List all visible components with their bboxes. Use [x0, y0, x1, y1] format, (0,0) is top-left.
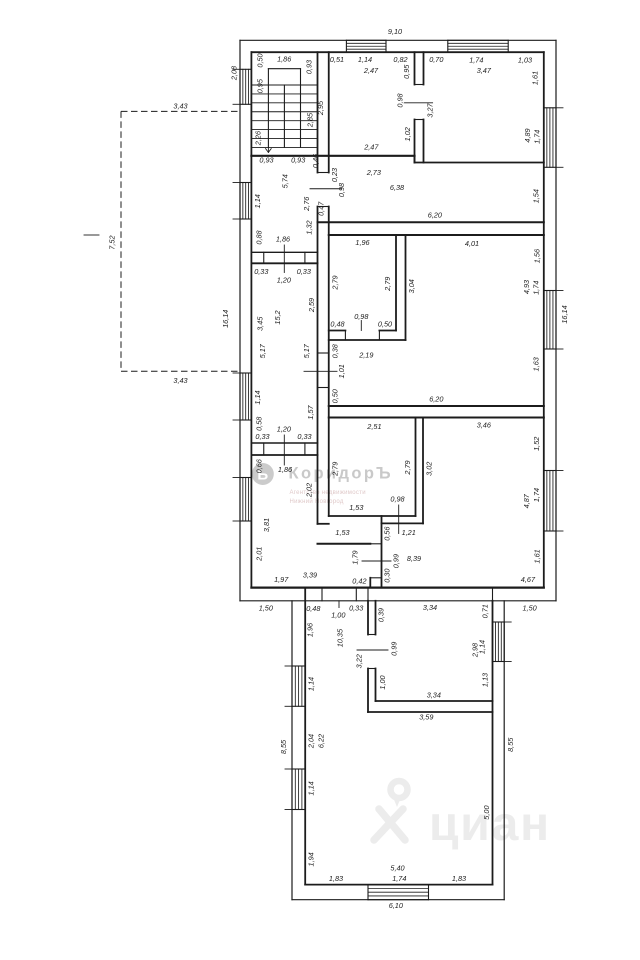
svg-text:0,39: 0,39: [377, 608, 386, 622]
svg-text:0,98: 0,98: [337, 182, 346, 197]
svg-text:2,47: 2,47: [363, 66, 379, 75]
svg-text:3,43: 3,43: [173, 101, 187, 110]
svg-text:1,74: 1,74: [532, 281, 541, 295]
svg-text:15,2: 15,2: [273, 310, 282, 324]
svg-text:4,89: 4,89: [523, 128, 532, 142]
svg-text:1,21: 1,21: [402, 528, 416, 537]
svg-text:1,50: 1,50: [522, 603, 536, 612]
svg-text:0,99: 0,99: [392, 554, 401, 568]
svg-text:3,27: 3,27: [426, 102, 435, 117]
svg-text:0,71: 0,71: [481, 604, 490, 618]
svg-text:0,98: 0,98: [354, 312, 369, 321]
svg-text:6,22: 6,22: [317, 734, 326, 748]
svg-text:1,86: 1,86: [276, 234, 291, 243]
svg-text:3,59: 3,59: [419, 713, 433, 722]
svg-text:16,14: 16,14: [560, 305, 569, 323]
svg-text:Агентство недвижимости: Агентство недвижимости: [290, 490, 366, 496]
svg-text:0,47: 0,47: [317, 201, 326, 216]
svg-text:0,93: 0,93: [304, 60, 313, 74]
svg-text:3,81: 3,81: [262, 518, 271, 532]
svg-text:1,32: 1,32: [304, 220, 313, 234]
svg-text:0,33: 0,33: [255, 432, 269, 441]
svg-text:3,47: 3,47: [477, 66, 492, 75]
svg-text:16,14: 16,14: [221, 310, 230, 328]
svg-text:1,83: 1,83: [452, 874, 466, 883]
svg-text:7,52: 7,52: [108, 235, 117, 249]
svg-text:0,93: 0,93: [259, 156, 273, 165]
svg-text:0,99: 0,99: [390, 642, 399, 656]
svg-text:0,50: 0,50: [255, 53, 264, 67]
svg-text:0,46: 0,46: [311, 153, 320, 168]
svg-text:8,55: 8,55: [506, 737, 515, 752]
svg-text:1,86: 1,86: [277, 54, 292, 63]
svg-text:1,74: 1,74: [533, 130, 542, 144]
svg-text:8,39: 8,39: [407, 554, 421, 563]
svg-text:2,26: 2,26: [253, 130, 262, 146]
svg-text:1,74: 1,74: [532, 488, 541, 502]
svg-text:0,58: 0,58: [254, 416, 263, 431]
svg-text:1,02: 1,02: [403, 127, 412, 141]
svg-text:1,61: 1,61: [532, 549, 541, 563]
svg-text:1,63: 1,63: [532, 357, 541, 371]
svg-text:2,59: 2,59: [307, 298, 316, 313]
svg-text:0,38: 0,38: [331, 343, 340, 358]
svg-text:0,82: 0,82: [393, 55, 407, 64]
svg-text:0,56: 0,56: [383, 526, 392, 541]
svg-text:1,74: 1,74: [469, 56, 483, 65]
svg-text:1,14: 1,14: [358, 55, 372, 64]
svg-text:1,56: 1,56: [532, 248, 541, 263]
svg-text:1,01: 1,01: [337, 364, 346, 378]
svg-text:1,20: 1,20: [277, 276, 291, 285]
svg-text:5,00: 5,00: [482, 805, 491, 819]
svg-text:2,79: 2,79: [331, 462, 340, 477]
svg-text:2,08: 2,08: [230, 65, 239, 81]
svg-text:1,96: 1,96: [306, 622, 315, 637]
svg-text:5,17: 5,17: [258, 343, 267, 358]
svg-text:1,57: 1,57: [306, 404, 315, 419]
svg-text:0,95: 0,95: [255, 78, 264, 93]
svg-text:1,14: 1,14: [306, 677, 315, 691]
svg-text:1,54: 1,54: [532, 189, 541, 203]
svg-text:0,50: 0,50: [378, 319, 392, 328]
svg-text:4,67: 4,67: [521, 575, 536, 584]
svg-text:4,87: 4,87: [522, 493, 531, 508]
svg-text:1,14: 1,14: [478, 640, 487, 654]
svg-text:0,66: 0,66: [254, 458, 263, 473]
svg-text:1,53: 1,53: [349, 503, 363, 512]
svg-text:6,20: 6,20: [429, 394, 443, 403]
svg-text:1,94: 1,94: [306, 852, 315, 866]
svg-text:2,19: 2,19: [358, 351, 373, 360]
svg-text:0,33: 0,33: [297, 267, 311, 276]
svg-text:4,01: 4,01: [465, 239, 479, 248]
svg-text:2,95: 2,95: [316, 100, 325, 116]
svg-text:6,10: 6,10: [389, 901, 403, 910]
svg-text:2,79: 2,79: [403, 460, 412, 475]
svg-text:5,74: 5,74: [281, 174, 290, 188]
svg-text:1,53: 1,53: [335, 528, 349, 537]
svg-text:2,79: 2,79: [383, 277, 392, 292]
svg-text:0,23: 0,23: [330, 168, 339, 182]
svg-text:0,33: 0,33: [254, 267, 268, 276]
svg-text:8,55: 8,55: [279, 739, 288, 754]
svg-text:1,14: 1,14: [253, 194, 262, 208]
svg-text:5,40: 5,40: [390, 863, 404, 872]
svg-text:0,98: 0,98: [390, 494, 405, 503]
svg-text:2,51: 2,51: [366, 422, 381, 431]
svg-text:3,43: 3,43: [173, 376, 187, 385]
svg-text:1,03: 1,03: [518, 56, 532, 65]
svg-text:0,50: 0,50: [331, 389, 340, 403]
svg-text:2,47: 2,47: [363, 142, 379, 151]
svg-text:2,79: 2,79: [331, 275, 340, 290]
svg-text:0,70: 0,70: [429, 55, 443, 64]
svg-text:3,02: 3,02: [424, 462, 433, 476]
svg-text:2,02: 2,02: [304, 483, 313, 498]
svg-text:0,98: 0,98: [396, 92, 405, 107]
svg-text:0,48: 0,48: [306, 604, 321, 613]
svg-text:1,83: 1,83: [329, 874, 343, 883]
svg-text:6,20: 6,20: [428, 211, 442, 220]
svg-text:2,85: 2,85: [305, 112, 314, 128]
svg-text:1,00: 1,00: [378, 675, 387, 689]
svg-text:3,39: 3,39: [303, 571, 317, 580]
svg-text:1,14: 1,14: [306, 781, 315, 795]
svg-text:1,52: 1,52: [532, 437, 541, 451]
svg-text:0,33: 0,33: [349, 603, 363, 612]
svg-text:3,45: 3,45: [256, 316, 265, 331]
svg-text:1,96: 1,96: [355, 238, 370, 247]
svg-text:1,79: 1,79: [351, 550, 360, 564]
svg-text:3,34: 3,34: [427, 691, 441, 700]
svg-text:0,95: 0,95: [402, 64, 411, 79]
svg-text:3,22: 3,22: [354, 654, 363, 668]
svg-text:3,46: 3,46: [477, 421, 492, 430]
svg-text:3,34: 3,34: [423, 603, 437, 612]
svg-text:0,93: 0,93: [291, 156, 305, 165]
svg-text:КоридорЪ: КоридорЪ: [289, 465, 394, 483]
svg-text:0,42: 0,42: [352, 577, 366, 586]
svg-text:1,20: 1,20: [277, 424, 291, 433]
svg-text:0,48: 0,48: [330, 319, 345, 328]
svg-text:1,14: 1,14: [253, 390, 262, 404]
svg-text:1,97: 1,97: [274, 575, 289, 584]
svg-text:1,50: 1,50: [259, 604, 273, 613]
svg-text:1,00: 1,00: [331, 610, 345, 619]
svg-text:4,93: 4,93: [522, 280, 531, 294]
svg-text:10,35: 10,35: [336, 628, 345, 647]
svg-text:2,76: 2,76: [302, 196, 311, 212]
svg-text:2,04: 2,04: [307, 734, 316, 749]
svg-text:6,38: 6,38: [390, 183, 405, 192]
svg-text:9,10: 9,10: [388, 27, 402, 36]
svg-text:0,33: 0,33: [297, 432, 311, 441]
svg-text:1,61: 1,61: [531, 71, 540, 85]
svg-text:1,13: 1,13: [481, 673, 490, 687]
svg-text:2,01: 2,01: [254, 547, 263, 562]
svg-text:0,88: 0,88: [254, 229, 263, 244]
svg-text:2,73: 2,73: [366, 168, 381, 177]
svg-text:1,86: 1,86: [278, 465, 293, 474]
svg-text:5,17: 5,17: [302, 343, 311, 358]
svg-text:3,04: 3,04: [407, 279, 416, 293]
svg-text:0,30: 0,30: [382, 569, 391, 583]
svg-text:1,74: 1,74: [392, 874, 406, 883]
svg-text:0,51: 0,51: [330, 55, 344, 64]
